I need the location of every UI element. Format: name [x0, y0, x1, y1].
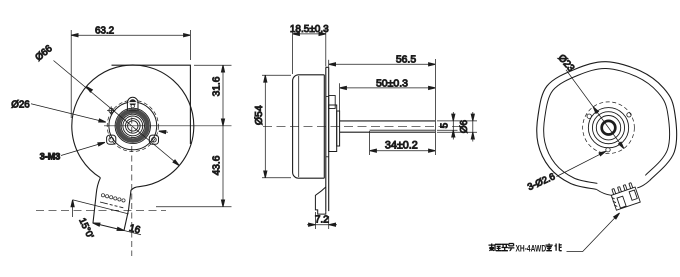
- bearing boss: [329, 105, 337, 152]
- svg-text:3-M3: 3-M3: [40, 152, 61, 162]
- flange tick upper: [326, 96, 329, 98]
- svg-text:43.6: 43.6: [212, 155, 223, 175]
- connector pin tiny label: [100, 202, 123, 208]
- stator square corner: [112, 65, 191, 144]
- svg-text:Ø66: Ø66: [33, 43, 55, 64]
- dimension 7.2: [307, 212, 337, 229]
- hub circles: [596, 116, 620, 140]
- lower-left ear hole: [109, 137, 114, 142]
- label 3-D2.6 leader: [557, 151, 606, 176]
- dimension D23: [566, 70, 624, 149]
- dimension 56.5: [329, 59, 436, 155]
- svg-text:63.2: 63.2: [95, 26, 114, 37]
- 15deg reference dashed line: [36, 209, 166, 211]
- bearing boss step: [337, 111, 340, 146]
- hub dark ring: [118, 111, 147, 140]
- dimension 34: [370, 131, 436, 155]
- top ear hole dark: [129, 99, 136, 106]
- svg-text:15°0': 15°0': [76, 216, 95, 240]
- dimension D6: [437, 112, 477, 142]
- svg-text:5: 5: [439, 122, 450, 128]
- motor body circle: [72, 65, 194, 187]
- label 3-M3 leader: [61, 142, 105, 155]
- connector leader: [567, 213, 620, 252]
- outer housing outline: [537, 62, 677, 190]
- centerline vertical dashed: [131, 108, 133, 256]
- svg-text:18.5±0.3: 18.5±0.3: [290, 24, 329, 35]
- dimension 16: [124, 231, 141, 235]
- svg-text:3-Ø2.6: 3-Ø2.6: [526, 171, 557, 193]
- svg-text:7.2: 7.2: [315, 214, 329, 225]
- hub ring edges: [115, 108, 150, 143]
- svg-text:Ø54: Ø54: [253, 105, 265, 125]
- inner housing wall: [544, 68, 670, 183]
- hub inner circles: [123, 116, 143, 136]
- flange plate: [326, 67, 329, 211]
- label CJK connector model: [516, 243, 547, 253]
- hub bearing thick ring: [602, 121, 616, 135]
- dimension D54: [262, 75, 291, 178]
- hub outer circle: [109, 102, 157, 150]
- svg-text:31.6: 31.6: [212, 76, 223, 96]
- dimension 15 deg: [72, 200, 74, 217]
- hole upper-right: [627, 113, 631, 117]
- dimension D66 diagonal: [54, 61, 180, 166]
- svg-text:34±0.2: 34±0.2: [385, 140, 418, 152]
- lower-right ear hole: [152, 137, 157, 142]
- dimension 18.5: [293, 28, 326, 74]
- svg-text:56.5: 56.5: [396, 54, 416, 65]
- hole bottom: [606, 148, 610, 152]
- dimension D26 leader: [31, 104, 106, 122]
- svg-text:50±0.3: 50±0.3: [376, 77, 408, 89]
- shaft: [340, 120, 436, 122]
- centerline horizontal: [104, 125, 232, 127]
- svg-text:Ø26: Ø26: [11, 100, 30, 111]
- connector back view: [596, 181, 649, 211]
- motor can: [293, 75, 325, 178]
- bottom bracket: [315, 187, 325, 214]
- small marker hole with cross: [109, 108, 114, 113]
- svg-text:XH-4AWD: XH-4AWD: [516, 243, 547, 253]
- hole upper-left: [587, 114, 591, 118]
- connector neck and box outline: [93, 178, 139, 231]
- lower-right ear tab: [149, 135, 158, 144]
- svg-text:Ø6: Ø6: [459, 119, 470, 133]
- lower-left ear tab: [107, 135, 116, 144]
- connector pins: [101, 194, 125, 202]
- bolt circle dashed: [583, 102, 635, 154]
- top ear tab: [127, 97, 138, 111]
- dimension 43.6: [156, 126, 232, 207]
- flange tick lower: [326, 156, 329, 158]
- dimension 50: [340, 83, 436, 110]
- hub bolt circle dashed: [107, 100, 158, 151]
- dimension 31.6: [194, 65, 232, 126]
- dimension 5: [437, 112, 458, 140]
- svg-text:Ø23: Ø23: [556, 53, 577, 75]
- connector box top edge (15deg line): [73, 200, 129, 214]
- dimension 63.2: [71, 30, 190, 118]
- flange top tab: [329, 96, 336, 109]
- centerline dashed: [263, 125, 459, 127]
- can lip line: [298, 76, 300, 177]
- hand-drawn CJK glyphs: [489, 244, 562, 251]
